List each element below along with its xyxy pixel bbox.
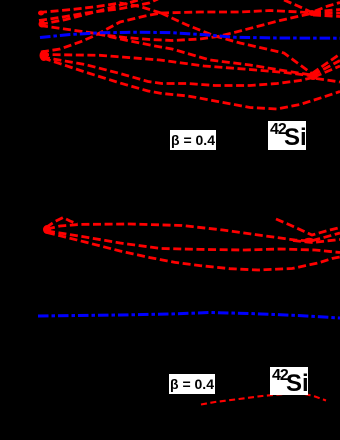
bottom panel blue fermi line [38, 313, 340, 319]
top panel red curve U1 [39, 3, 161, 13]
bottom beta label box [169, 374, 215, 394]
bottom 42Si label box [270, 367, 308, 395]
top panel vertex V3 exit a [312, 54, 340, 74]
bottom panel arch level [47, 224, 340, 241]
top beta label box [170, 130, 216, 150]
bottom panel low curve [201, 394, 326, 405]
bottom panel curve M2 [47, 233, 340, 271]
top panel red curve U2 [39, 0, 158, 21]
top panel fan curve F2 [41, 55, 313, 77]
top panel vertex V2 exit b [313, 12, 340, 15]
bottom panel line from top right [276, 219, 340, 235]
top panel red line entering from top [284, 0, 311, 12]
top panel left blob y24 [39, 21, 46, 28]
bottom panel right cluster blob [304, 238, 314, 244]
bottom panel curve M1 [47, 231, 340, 253]
top 42Si label box [268, 121, 306, 150]
top panel left blob y12 [38, 11, 44, 16]
top panel left blob y54 [40, 50, 49, 61]
top panel vertex V3 exit c [314, 66, 340, 77]
top panel fan curve F3 [42, 57, 313, 86]
top panel V3 blob [309, 72, 318, 80]
top panel fan curve F4 [43, 58, 340, 109]
bottom panel arch spike [46, 218, 77, 228]
top panel fan curve F1 [41, 13, 161, 52]
top panel V2 blob [309, 10, 315, 16]
top panel red curve D [161, 13, 313, 75]
top panel red flat level [161, 11, 312, 14]
top panel blue fermi line [40, 32, 340, 38]
top panel vertex V2 exit up [315, 3, 340, 12]
top panel vertex V3 exit b [313, 61, 340, 76]
top panel red curve B2 [40, 26, 313, 76]
top panel vertex V2 exit a [313, 10, 340, 13]
top panel vertex V3 exit flat [316, 79, 340, 83]
top panel vertex V2 exit c [313, 15, 340, 17]
top panel red curve R [96, 14, 311, 41]
bottom panel cluster lower exit [293, 240, 340, 243]
top panel red curve T1 [40, 0, 142, 25]
bottom panel left blob [43, 225, 51, 234]
